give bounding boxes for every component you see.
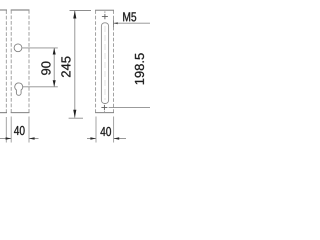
left 40 dim line right tail xyxy=(29,138,39,140)
extension line from keyhole xyxy=(23,86,58,88)
left view plate: dashed right edge xyxy=(28,10,30,113)
plate edge tick at leader crossing xyxy=(113,20,115,28)
M5 leader line xyxy=(114,22,151,24)
right view plate: dashed right edge xyxy=(113,10,115,112)
right 40 dim arrow (tip at left ext line pointing right) xyxy=(90,137,96,139)
slot in right view xyxy=(101,23,108,104)
90 dim arrow down xyxy=(53,80,56,87)
right view plate: dashed left edge xyxy=(95,10,97,112)
198.5 bottom extension line xyxy=(109,107,150,109)
right view plate outline: bottom edge xyxy=(95,112,114,114)
right view 40-dim right extension line xyxy=(113,117,115,143)
90 dim arrow up xyxy=(53,48,56,55)
left view 40-dim left extension line xyxy=(10,117,12,143)
M5 label xyxy=(123,12,136,21)
bottom centerline tick xyxy=(103,110,105,113)
left 40 dim arrow (tip at right ext line pointing left) xyxy=(29,137,35,139)
right view 40-dim left extension line xyxy=(95,117,97,143)
245 dimension line xyxy=(74,11,76,118)
left view plate: dashed left edge xyxy=(10,10,12,113)
245 dim arrow down xyxy=(73,110,76,118)
top centerline tick xyxy=(104,11,106,13)
cropped left view: dashed right edge xyxy=(5,10,7,112)
left 40 label xyxy=(14,126,25,135)
245 dim arrow up xyxy=(73,11,76,19)
245 label xyxy=(61,57,70,77)
keyhole (euro cylinder cutout) xyxy=(15,83,23,95)
cropped left view: top edge xyxy=(0,9,7,11)
M5 leader arrow xyxy=(114,22,118,24)
right 40 label xyxy=(100,127,111,136)
90 dimension line xyxy=(53,48,55,87)
245 top extension line xyxy=(70,10,92,12)
left view 40-dim right extension line xyxy=(28,117,30,143)
198.5 label xyxy=(135,53,144,84)
slot centerline xyxy=(104,26,106,100)
cropped left view: bottom edge xyxy=(0,112,7,114)
left view plate outline: bottom edge xyxy=(11,112,30,114)
left 40 dim arrow (tip at left ext line pointing right) xyxy=(6,137,12,139)
circle hole in left view xyxy=(14,44,22,52)
left view plate outline: top edge xyxy=(11,9,30,11)
right 40 dim line left tail xyxy=(87,138,96,140)
extension line from circle xyxy=(22,47,58,49)
bottom M5 hole cross xyxy=(101,105,107,110)
cropped view 40-dim extension line xyxy=(5,117,7,143)
top M5 hole cross xyxy=(102,14,108,19)
right 40 dim arrow (tip at right ext line pointing left) xyxy=(114,137,120,139)
left 40 dim line left tail xyxy=(0,138,11,140)
right view plate outline: top edge xyxy=(95,9,114,11)
90 label xyxy=(41,62,50,75)
right 40 dim line right tail xyxy=(114,138,126,140)
245 bottom extension line xyxy=(69,117,83,119)
